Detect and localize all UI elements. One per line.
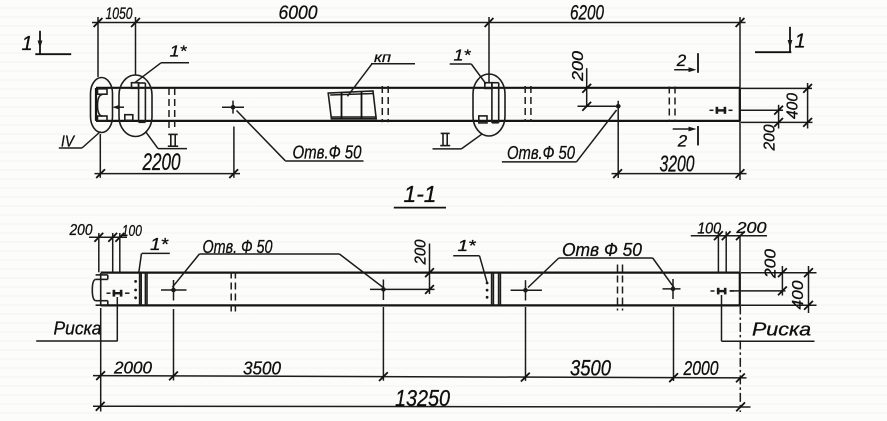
svg-text:кп: кп <box>374 49 391 65</box>
svg-text:1: 1 <box>21 33 32 55</box>
svg-text:Отв.Ф 50: Отв.Ф 50 <box>507 143 575 163</box>
svg-text:6200: 6200 <box>570 2 604 25</box>
svg-text:400: 400 <box>790 280 807 309</box>
svg-text:1*: 1* <box>458 238 477 255</box>
svg-text:2: 2 <box>676 51 687 70</box>
svg-text:200: 200 <box>570 51 587 82</box>
svg-text:200: 200 <box>762 124 779 151</box>
svg-text:1050: 1050 <box>106 5 134 23</box>
svg-text:1-1: 1-1 <box>404 181 437 207</box>
svg-text:1*: 1* <box>454 48 472 65</box>
svg-text:2200: 2200 <box>142 149 181 176</box>
svg-text:400: 400 <box>785 93 802 119</box>
svg-text:200: 200 <box>763 249 780 279</box>
svg-text:Риска: Риска <box>752 320 811 340</box>
svg-text:3500: 3500 <box>570 356 611 381</box>
svg-text:200: 200 <box>735 220 766 237</box>
svg-text:2: 2 <box>677 132 688 151</box>
svg-text:Отв Ф 50: Отв Ф 50 <box>562 239 643 260</box>
svg-text:200: 200 <box>69 222 93 239</box>
svg-text:100: 100 <box>122 223 142 240</box>
svg-text:3200: 3200 <box>660 151 695 177</box>
svg-text:100: 100 <box>697 221 721 238</box>
svg-text:200: 200 <box>413 239 430 265</box>
svg-text:6000: 6000 <box>279 2 318 24</box>
svg-text:2000: 2000 <box>683 358 719 380</box>
svg-text:1*: 1* <box>150 234 169 254</box>
svg-text:3500: 3500 <box>243 358 282 379</box>
svg-text:2000: 2000 <box>113 358 152 378</box>
svg-text:Риска: Риска <box>54 319 102 339</box>
svg-text:1*: 1* <box>170 44 188 61</box>
svg-text:Отв.Ф 50: Отв.Ф 50 <box>293 143 362 163</box>
svg-text:13250: 13250 <box>395 385 450 411</box>
svg-text:1: 1 <box>794 31 805 53</box>
